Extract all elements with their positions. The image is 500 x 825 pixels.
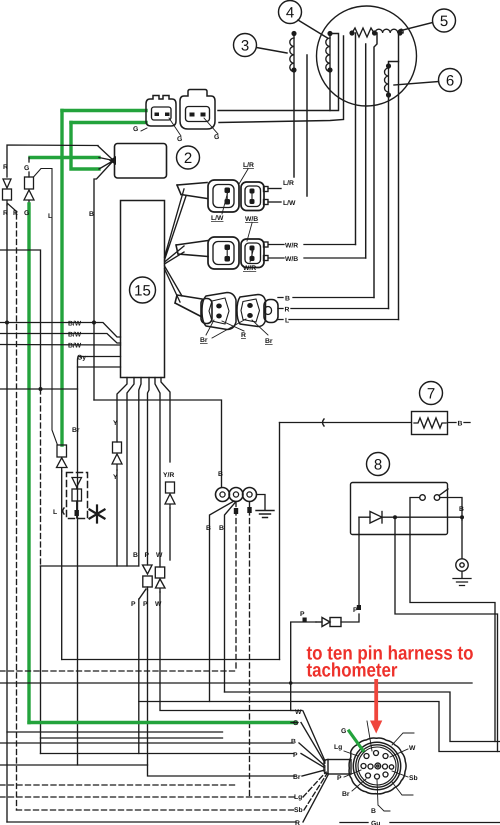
wire y765 with jog	[0, 764, 148, 766]
svg-text:Sb: Sb	[409, 775, 418, 782]
wire dashed y810 Sb feed	[17, 809, 297, 811]
wire box8 output step A	[410, 535, 495, 742]
leader from badge 3 to coil 3	[257, 48, 288, 54]
dashed drop from ring3	[249, 502, 251, 798]
ring terminal 3	[243, 488, 257, 502]
svg-text:W/R: W/R	[285, 243, 298, 250]
svg-text:B: B	[206, 525, 211, 532]
wire pair3 R row	[278, 308, 389, 310]
svg-text:Br: Br	[293, 774, 301, 781]
svg-text:Lg: Lg	[294, 794, 302, 801]
svg-text:P: P	[145, 552, 150, 559]
wire box8 right to ground	[461, 520, 463, 559]
wire pair1 L/W to label	[268, 201, 281, 203]
svg-text:B: B	[133, 552, 138, 559]
inline bullet pair mid column B/P	[131, 552, 165, 608]
asterisk mark	[90, 506, 105, 523]
blob below option box	[75, 510, 79, 516]
svg-text:L: L	[53, 509, 57, 516]
wire box8 P output down-left	[341, 535, 359, 623]
bottom line with Gu label	[340, 821, 500, 825]
svg-text:G: G	[214, 134, 219, 141]
fan into box 2 left	[94, 146, 114, 400]
badge circle 7	[420, 382, 443, 405]
box15 bottom fan 6 wires	[117, 378, 170, 568]
wire x160 lower	[160, 592, 302, 711]
wire pair3 B row	[278, 297, 374, 299]
leader from badge 5 to coil 5	[399, 23, 433, 32]
svg-text:B: B	[371, 808, 376, 815]
tenpin stem	[324, 760, 351, 775]
leader top pin to arrow area	[367, 721, 372, 751]
ignition coil connector pair 1 left shell	[208, 180, 239, 212]
wire resistor left to x279	[280, 422, 412, 424]
labels below pair3	[200, 332, 273, 345]
svg-text:R: R	[241, 332, 246, 339]
leader hook right lower	[392, 782, 413, 795]
junction dot on y683	[289, 681, 293, 685]
wire pair3 L row	[278, 319, 399, 321]
label P tenpin + leader	[337, 770, 361, 782]
dashed drop from ring2	[235, 502, 237, 672]
wire x40 dashed mid segment	[40, 389, 42, 566]
wire R solid down	[6, 205, 8, 822]
svg-text:Br: Br	[342, 791, 350, 798]
svg-text:R: R	[285, 307, 290, 314]
diode in box 8	[359, 512, 464, 524]
wire coil5 down to W/R row	[355, 33, 357, 245]
label Sb tenpin + leader	[392, 771, 418, 782]
rectifier box 2	[115, 144, 167, 179]
svg-text:B: B	[285, 296, 290, 303]
svg-text:L/R: L/R	[283, 180, 294, 187]
wire left edge y245 corner x40	[0, 250, 41, 389]
leader hook top right	[392, 733, 414, 745]
wire P bullet left corner down to W fan	[291, 622, 316, 711]
wire coil5 down to W/B row	[365, 44, 367, 258]
pulser coil 3	[290, 32, 296, 72]
green wire upper to left plug	[62, 109, 146, 112]
green wire vertical x71	[71, 123, 99, 170]
wire top-left horizontal to R bullet	[7, 145, 98, 177]
wire Gy loop	[78, 357, 121, 368]
wire pair2 W/B row	[269, 257, 366, 259]
svg-text:L/W: L/W	[283, 200, 296, 207]
red arrow to connector	[370, 679, 382, 734]
fan from box15 right to coil pairs	[165, 189, 187, 302]
svg-text:R: R	[13, 210, 18, 217]
wire R dashed down	[16, 214, 18, 810]
badge circle 15	[130, 277, 156, 303]
label Br tenpin + leader	[342, 779, 366, 798]
black cap over green at fan	[291, 722, 298, 724]
wire diode-left down out of box	[358, 517, 360, 534]
ground symbol right of rings	[256, 511, 274, 518]
wire flywheel down to B row	[374, 33, 377, 298]
resistor 7 zigzag	[414, 418, 446, 428]
CDI unit box 15	[121, 201, 165, 378]
wire left edge to x77 down	[0, 367, 78, 389]
blob on dashed drop	[234, 508, 238, 514]
starter relay box 8	[351, 483, 448, 535]
wire plug pair to flywheel upper	[218, 34, 339, 111]
wire coil4 down to L/W label	[306, 55, 308, 196]
ground symbol box8	[453, 571, 471, 585]
svg-text:B: B	[89, 211, 94, 218]
svg-text:W: W	[156, 552, 163, 559]
svg-text:B/W: B/W	[68, 343, 82, 350]
ignition coil connector pair 1 right shell	[241, 182, 268, 211]
wire coil4 drop to plug wire	[329, 70, 331, 111]
wire y822 R feed	[7, 821, 296, 823]
svg-text:15: 15	[134, 283, 151, 300]
svg-text:B/W: B/W	[68, 321, 82, 328]
svg-text:R: R	[3, 164, 8, 171]
leader from badge 4 to coil 4	[298, 20, 328, 38]
badge circle 4	[279, 1, 302, 24]
junction dots on B/W line 1	[92, 320, 96, 324]
svg-text:Br: Br	[72, 427, 80, 434]
label L/R above pair1	[239, 162, 254, 184]
right plug connector (2-pin)	[180, 90, 215, 130]
wire x40 lower solid	[40, 566, 42, 754]
svg-text:G: G	[293, 720, 298, 727]
wire horizontal y659	[62, 659, 280, 661]
label L/W below pair1	[211, 191, 228, 222]
horn boot pair3	[175, 295, 202, 317]
svg-text:2: 2	[184, 150, 192, 167]
svg-text:Y: Y	[113, 420, 118, 427]
svg-text:W/R: W/R	[243, 265, 256, 272]
switch contacts in box 8	[410, 489, 462, 535]
horn boot pair1	[177, 183, 207, 199]
pulser coil 4	[326, 32, 332, 72]
svg-text:G: G	[133, 126, 138, 133]
dashed option box	[67, 473, 88, 519]
wire dashed y785	[0, 784, 236, 786]
wire B/W 2 from left edge	[0, 334, 121, 344]
svg-text:P: P	[337, 775, 342, 782]
pair3 right tail sleeve	[264, 300, 278, 323]
bullet connector R (top)	[3, 179, 17, 214]
label W tenpin + leader	[390, 745, 416, 757]
svg-text:W: W	[155, 601, 162, 608]
tenpin fan labels column	[291, 709, 303, 825]
wire step line B y707	[139, 702, 500, 752]
wire x139 lower continues	[138, 599, 140, 754]
blob on dashed drop 2	[247, 507, 251, 513]
badge circle 5	[433, 9, 456, 32]
ground terminal circle box8	[456, 559, 468, 571]
lighting coil 6	[385, 64, 391, 97]
wire x147 lower	[148, 590, 296, 776]
label G left plug	[133, 126, 147, 133]
green wire long vertical (x62)	[60, 111, 63, 446]
wire y400 from box2-drop to B ring	[94, 400, 222, 487]
tenpin fan wires to stem	[299, 711, 328, 822]
svg-text:3: 3	[241, 38, 249, 55]
label B tenpin + leader	[371, 780, 390, 815]
wire y732	[7, 731, 223, 733]
flywheel magneto circle	[317, 6, 417, 106]
svg-text:W: W	[295, 709, 302, 716]
labels R R G L row	[3, 210, 52, 220]
badge circle 6	[439, 69, 462, 92]
svg-text:G: G	[24, 165, 29, 172]
wire x279 down	[279, 423, 281, 660]
wire x78 down from 389	[77, 389, 79, 765]
wire pair2 W/R row	[269, 244, 356, 246]
svg-text:B: B	[218, 471, 223, 478]
bullet pair inside option box	[72, 478, 82, 519]
wire horizontal y683	[0, 682, 472, 684]
label G right plug	[204, 118, 219, 141]
tenpin ring circles	[353, 742, 400, 789]
svg-text:R: R	[295, 820, 300, 825]
wire coil3 down to L/R label	[293, 70, 295, 177]
wire dashed y797 Lg feed	[0, 796, 296, 798]
badge circle 8	[367, 453, 390, 476]
green wire bottom horizontal	[29, 721, 296, 724]
wire flywheel down to L row	[398, 34, 400, 320]
ignition coil connector pair 2 right shell	[241, 239, 268, 268]
wire y753.5 P feed	[41, 753, 295, 755]
labels B B below rings	[206, 525, 224, 532]
svg-text:L/R: L/R	[243, 162, 254, 169]
labels B/W x3	[68, 321, 82, 350]
svg-text:R: R	[3, 210, 8, 217]
ring terminal 2	[229, 488, 243, 502]
svg-text:G: G	[341, 728, 346, 735]
wire x62 below bullet down to 659	[61, 471, 63, 660]
label Lg tenpin + leader	[334, 744, 358, 756]
green wire lower to left plug	[71, 121, 146, 124]
wire y745 B feed	[0, 742, 293, 744]
svg-text:W/B: W/B	[245, 216, 258, 223]
wire step line A y694	[225, 692, 500, 742]
svg-text:B: B	[459, 506, 464, 513]
label W/R below pair2	[243, 251, 256, 272]
wire from diode junction down out of box	[394, 517, 396, 534]
resistor 7 box	[412, 412, 448, 435]
wire G green down long	[27, 204, 30, 723]
bullet connector Y/R	[165, 482, 175, 508]
tenpin outer scalloped ring	[349, 738, 406, 794]
svg-text:W/B: W/B	[285, 256, 298, 263]
svg-text:W: W	[409, 745, 416, 752]
blob P wire left	[303, 618, 307, 623]
wire horizontal y562	[41, 565, 139, 567]
ring terminal 1	[216, 488, 230, 502]
wire B/W 3 from left edge	[0, 344, 121, 347]
wire Y down	[116, 470, 118, 566]
wires from ring2 down-left B B	[210, 501, 237, 702]
svg-text:B: B	[291, 739, 296, 746]
wire box8 output step B	[395, 535, 498, 752]
svg-text:B: B	[219, 525, 224, 532]
inline tick on resistor wire	[323, 419, 325, 426]
pair3 left boot sleeve	[201, 299, 212, 324]
junction dot x40/y389	[39, 387, 43, 391]
svg-text:Br: Br	[265, 338, 273, 345]
svg-text:5: 5	[440, 13, 448, 30]
svg-text:8: 8	[374, 457, 382, 474]
svg-text:L/W: L/W	[211, 215, 224, 222]
inline bullet pair on P wire	[316, 618, 341, 627]
label G middle	[169, 118, 182, 143]
wire pair1 L/R to label	[268, 188, 281, 190]
inline tick on x62 wire	[63, 508, 64, 514]
wire dashed y671	[0, 670, 236, 672]
wire plug pair to flywheel lower	[219, 36, 344, 123]
svg-text:G: G	[24, 210, 29, 217]
svg-text:G: G	[177, 136, 182, 143]
svg-text:P: P	[300, 611, 305, 618]
label W/B above pair2	[245, 216, 258, 241]
svg-text:7: 7	[427, 386, 435, 403]
svg-text:Gu: Gu	[371, 821, 380, 825]
badge circle 3	[234, 34, 257, 57]
charge connector pair 3 left shell (diamond)	[202, 293, 236, 330]
charge coil 5 (horizontal)	[350, 28, 403, 37]
svg-text:L: L	[48, 213, 52, 220]
fan blob box2	[109, 156, 116, 165]
svg-text:P: P	[131, 601, 136, 608]
charge connector pair 3 right shell	[237, 295, 266, 327]
svg-text:Lg: Lg	[334, 744, 342, 751]
ignition coil connector pair 2 left shell	[208, 237, 239, 269]
wire y738	[41, 737, 223, 739]
horn boot pair2	[176, 241, 208, 257]
svg-text:B/W: B/W	[68, 332, 82, 339]
bullet connector Y	[112, 442, 122, 470]
svg-text:tachometer: tachometer	[307, 660, 398, 682]
svg-text:B: B	[458, 421, 463, 428]
badge circle 2	[177, 146, 200, 169]
svg-text:Sb: Sb	[294, 807, 303, 814]
wire B/W 1 from left edge	[0, 323, 121, 338]
green wire horizontal to G bullet	[30, 156, 99, 159]
svg-text:4: 4	[286, 5, 294, 22]
wire from coil6 top hook to coil5 right	[389, 62, 399, 67]
wire Gy into box	[88, 356, 121, 358]
left plug connector (2-pin)	[146, 96, 176, 127]
leader from badge 6 to coil 6	[394, 82, 439, 86]
tenpin pins	[361, 751, 394, 780]
bullet connector on green x62	[57, 445, 68, 471]
svg-text:Br: Br	[200, 337, 208, 344]
wire Y/R down	[169, 508, 171, 560]
svg-text:P: P	[293, 752, 298, 759]
green highlight tick at G pin	[349, 731, 363, 751]
wire ring3 to ground	[257, 495, 266, 511]
pair3 leader lines to bottom labels	[206, 319, 268, 338]
hook G bullet to L wire	[34, 169, 58, 446]
wire coil6 down to R row	[388, 95, 390, 309]
svg-text:L: L	[285, 318, 289, 325]
blob P wire	[357, 605, 361, 610]
svg-text:6: 6	[446, 73, 454, 90]
pair3 right stub	[265, 307, 272, 315]
wire resistor right + label B	[448, 422, 471, 424]
svg-text:Y/R: Y/R	[163, 472, 174, 479]
bullet connector G	[24, 158, 34, 205]
